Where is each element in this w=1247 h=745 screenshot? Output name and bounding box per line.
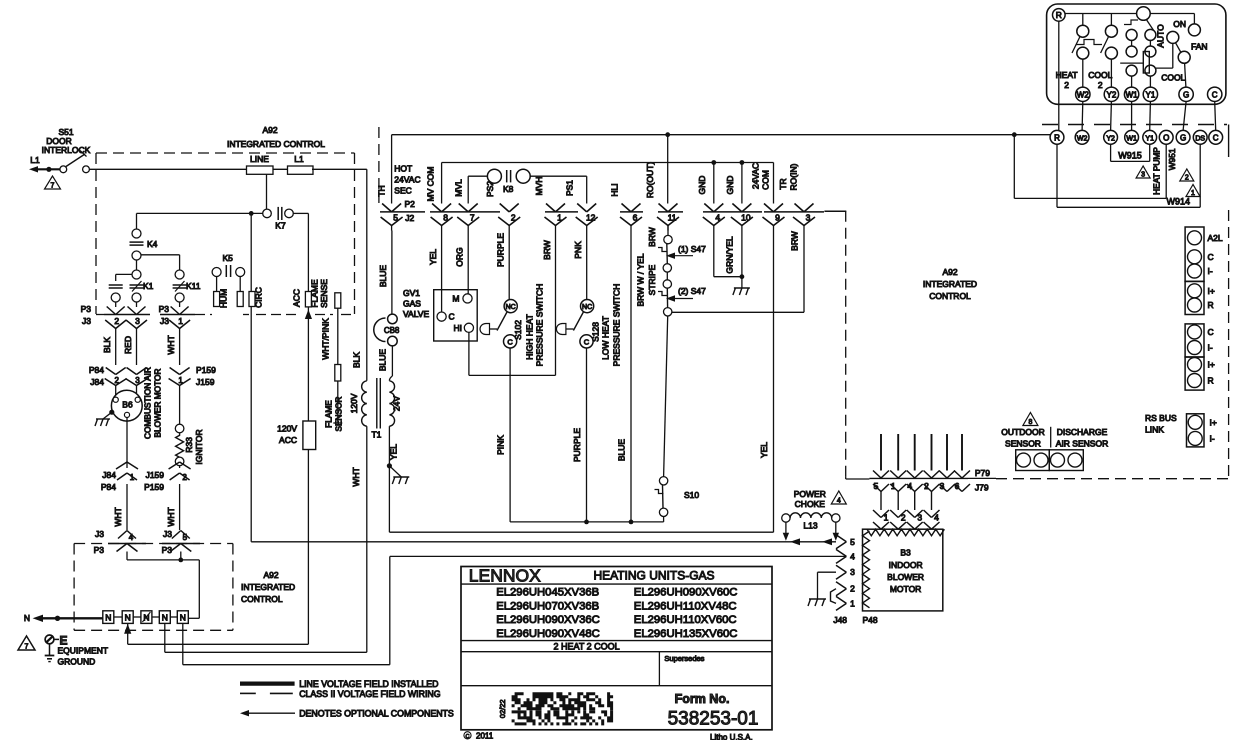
svg-text:L1: L1 (30, 155, 40, 165)
svg-text:J2: J2 (405, 213, 414, 223)
svg-text:WHT: WHT (166, 507, 176, 526)
svg-text:COM: COM (761, 170, 771, 190)
svg-text:INTEGRATED: INTEGRATED (923, 279, 977, 289)
svg-text:CLASS II VOLTAGE FIELD WIRING: CLASS II VOLTAGE FIELD WIRING (299, 689, 441, 699)
svg-text:YEL: YEL (428, 249, 438, 265)
svg-text:BLK: BLK (352, 352, 362, 368)
svg-text:J3: J3 (95, 529, 104, 539)
svg-text:I-: I- (1208, 266, 1213, 276)
svg-text:6: 6 (633, 213, 638, 223)
svg-text:HUM: HUM (219, 289, 229, 308)
svg-text:Y2: Y2 (1107, 90, 1117, 99)
svg-text:12: 12 (586, 213, 596, 223)
svg-text:W951: W951 (1167, 148, 1177, 170)
svg-text:8: 8 (1028, 419, 1032, 426)
svg-text:2: 2 (1098, 80, 1103, 90)
svg-text:24VAC: 24VAC (394, 175, 420, 185)
svg-text:(2) S47: (2) S47 (678, 286, 706, 296)
svg-text:FLAME: FLAME (310, 279, 320, 308)
svg-text:GAS: GAS (403, 299, 421, 309)
svg-text:INDOOR: INDOOR (889, 560, 923, 570)
svg-text:SENSOR: SENSOR (1005, 439, 1041, 449)
svg-text:N: N (24, 613, 30, 623)
svg-text:COOL: COOL (1088, 70, 1112, 80)
svg-text:RED: RED (123, 336, 133, 354)
svg-text:RO(OUT): RO(OUT) (645, 162, 655, 199)
svg-text:PRESSURE SWITCH: PRESSURE SWITCH (535, 284, 545, 367)
svg-text:NC: NC (506, 304, 516, 311)
svg-text:11: 11 (668, 213, 677, 223)
svg-text:538253-01: 538253-01 (668, 709, 759, 730)
svg-text:J48: J48 (833, 615, 847, 625)
svg-text:S102: S102 (513, 320, 523, 340)
svg-text:Litho U.S.A.: Litho U.S.A. (710, 733, 753, 740)
svg-text:O: O (1163, 133, 1169, 142)
svg-text:LENNOX: LENNOX (469, 566, 541, 586)
svg-text:A92: A92 (263, 570, 278, 580)
svg-text:3: 3 (1141, 172, 1145, 179)
svg-text:PRESSURE SWITCH: PRESSURE SWITCH (612, 284, 622, 367)
svg-text:EL296UH110XV48C: EL296UH110XV48C (634, 600, 737, 612)
svg-text:BRW: BRW (647, 227, 657, 247)
svg-text:INTEGRATED CONTROL: INTEGRATED CONTROL (227, 139, 325, 149)
svg-text:N: N (125, 612, 131, 622)
svg-text:LINK: LINK (1145, 425, 1164, 435)
svg-text:120V: 120V (349, 393, 359, 413)
svg-text:(1) S47: (1) S47 (678, 244, 706, 254)
svg-text:YEL: YEL (759, 442, 769, 458)
svg-text:P159: P159 (144, 482, 164, 492)
svg-text:4: 4 (837, 498, 841, 505)
svg-text:4: 4 (934, 513, 939, 523)
svg-text:2: 2 (511, 213, 516, 223)
svg-text:ON: ON (1173, 19, 1186, 29)
svg-text:3: 3 (806, 213, 811, 223)
svg-text:DS: DS (1195, 135, 1205, 142)
svg-text:LINE VOLTAGE FIELD INSTALLED: LINE VOLTAGE FIELD INSTALLED (299, 679, 438, 689)
svg-text:B3: B3 (900, 548, 911, 558)
svg-text:P79: P79 (975, 468, 990, 478)
svg-text:EL296UH090XV60C: EL296UH090XV60C (634, 587, 738, 599)
svg-text:BRW W / YEL: BRW W / YEL (636, 253, 646, 306)
svg-text:1: 1 (557, 213, 562, 223)
svg-text:2: 2 (1064, 80, 1069, 90)
svg-text:GND: GND (725, 176, 735, 195)
svg-text:EQUIPMENT: EQUIPMENT (58, 646, 109, 656)
svg-text:Supersedes: Supersedes (664, 654, 704, 663)
svg-text:9: 9 (775, 213, 780, 223)
svg-text:P3: P3 (162, 545, 173, 555)
svg-text:HEAT: HEAT (1056, 70, 1078, 80)
svg-text:BRW: BRW (542, 240, 552, 260)
svg-text:PURPLE: PURPLE (572, 428, 582, 462)
svg-text:W914: W914 (1166, 197, 1190, 207)
svg-text:MV COM: MV COM (426, 167, 436, 202)
svg-text:K7: K7 (275, 221, 286, 231)
svg-text:P84: P84 (101, 482, 116, 492)
svg-text:FAN: FAN (1191, 42, 1208, 52)
svg-text:J159: J159 (196, 377, 215, 387)
svg-text:2: 2 (182, 473, 187, 482)
svg-text:3: 3 (135, 376, 140, 385)
svg-text:I+: I+ (1208, 286, 1215, 296)
svg-text:I-: I- (1208, 343, 1213, 353)
svg-text:10: 10 (741, 213, 751, 223)
svg-text:VALVE: VALVE (403, 309, 429, 319)
svg-text:GROUND: GROUND (58, 657, 96, 667)
svg-text:WHT: WHT (351, 467, 361, 486)
svg-text:I-: I- (1210, 433, 1215, 443)
svg-text:J79: J79 (975, 483, 989, 493)
svg-text:R33: R33 (184, 437, 194, 453)
svg-text:YEL: YEL (389, 444, 399, 460)
svg-text:LINE: LINE (250, 154, 269, 164)
svg-text:EL296UH090XV48C: EL296UH090XV48C (496, 628, 600, 640)
svg-text:8: 8 (443, 213, 448, 223)
svg-text:ORG: ORG (455, 247, 465, 266)
svg-text:24V: 24V (392, 396, 402, 411)
svg-text:NC: NC (582, 304, 592, 311)
svg-text:2: 2 (901, 513, 906, 523)
svg-text:BRW: BRW (790, 231, 800, 251)
svg-text:3: 3 (850, 567, 855, 577)
svg-text:WHT: WHT (166, 335, 176, 354)
svg-text:ACC: ACC (292, 289, 302, 307)
svg-text:N: N (162, 612, 168, 622)
svg-text:7: 7 (470, 213, 475, 223)
svg-text:R: R (1208, 376, 1214, 386)
svg-text:HOT: HOT (394, 164, 412, 174)
svg-text:P3: P3 (81, 304, 92, 314)
svg-text:K1: K1 (143, 281, 154, 291)
svg-text:K8: K8 (503, 184, 514, 194)
svg-text:HEATING UNITS-GAS: HEATING UNITS-GAS (593, 569, 714, 583)
svg-text:CHOKE: CHOKE (795, 499, 826, 509)
svg-text:120V: 120V (277, 424, 297, 434)
svg-text:Y2: Y2 (1106, 135, 1115, 142)
svg-text:RO(IN): RO(IN) (789, 163, 799, 190)
svg-text:4: 4 (129, 533, 134, 542)
svg-text:EL296UH090XV36C: EL296UH090XV36C (496, 614, 600, 626)
svg-text:BLUE: BLUE (378, 349, 388, 372)
svg-text:DENOTES OPTIONAL COMPONENTS: DENOTES OPTIONAL COMPONENTS (299, 709, 454, 719)
svg-text:HEAT PUMP: HEAT PUMP (1151, 147, 1161, 195)
svg-text:COOL: COOL (1161, 73, 1185, 83)
svg-text:C: C (466, 734, 470, 740)
svg-text:MOTOR: MOTOR (890, 584, 921, 594)
svg-text:PS1: PS1 (564, 180, 574, 196)
svg-text:ACC: ACC (279, 435, 297, 445)
svg-text:4: 4 (850, 551, 855, 561)
svg-text:I+: I+ (1210, 417, 1217, 427)
svg-text:P3: P3 (159, 304, 170, 314)
svg-text:K11: K11 (186, 281, 201, 291)
svg-text:LOW HEAT: LOW HEAT (600, 316, 610, 360)
svg-text:TR: TR (778, 178, 788, 189)
svg-text:4: 4 (715, 213, 720, 223)
svg-text:P2: P2 (404, 199, 415, 209)
svg-text:1: 1 (850, 598, 855, 608)
svg-text:EL296UH110XV60C: EL296UH110XV60C (634, 614, 737, 626)
svg-text:24VAC: 24VAC (751, 163, 761, 189)
svg-text:1: 1 (130, 473, 135, 482)
svg-text:PURPLE: PURPLE (496, 233, 506, 267)
svg-text:WHT/PINK: WHT/PINK (321, 318, 331, 360)
svg-text:7: 7 (51, 183, 55, 190)
svg-text:J3: J3 (163, 529, 172, 539)
svg-text:Form No.: Form No. (675, 692, 730, 706)
svg-text:HI: HI (454, 323, 463, 333)
svg-text:CONTROL: CONTROL (929, 291, 971, 301)
svg-text:K4: K4 (147, 239, 158, 249)
svg-text:POWER: POWER (794, 489, 826, 499)
svg-text:W915: W915 (1118, 150, 1142, 160)
svg-text:Y1: Y1 (1145, 135, 1154, 142)
svg-text:W1: W1 (1126, 135, 1137, 142)
svg-text:MVL: MVL (453, 179, 463, 197)
svg-text:2: 2 (850, 584, 855, 594)
svg-text:A92: A92 (262, 125, 277, 135)
svg-text:P48: P48 (862, 615, 877, 625)
svg-text:BLUE: BLUE (617, 439, 627, 462)
svg-text:S10: S10 (684, 490, 699, 500)
svg-text:AIR SENSOR: AIR SENSOR (1056, 439, 1108, 449)
svg-text:C: C (1212, 90, 1218, 99)
svg-text:5: 5 (393, 213, 398, 223)
svg-text:C: C (584, 337, 590, 346)
svg-text:C: C (1208, 252, 1214, 262)
svg-text:1: 1 (884, 513, 889, 523)
svg-text:2011: 2011 (476, 732, 494, 741)
svg-text:STRIPE: STRIPE (647, 264, 657, 295)
svg-text:2: 2 (114, 316, 119, 326)
svg-text:1: 1 (178, 376, 183, 385)
svg-text:I+: I+ (1208, 360, 1215, 370)
svg-text:C: C (1208, 327, 1214, 337)
svg-text:C: C (1213, 133, 1219, 142)
svg-text:W2: W2 (1077, 135, 1088, 142)
svg-text:K5: K5 (222, 253, 233, 263)
svg-text:7: 7 (25, 644, 29, 651)
svg-text:EL296UH135XV60C: EL296UH135XV60C (634, 628, 738, 640)
svg-text:02/22: 02/22 (498, 699, 507, 718)
svg-text:N: N (105, 612, 111, 622)
svg-text:1: 1 (1191, 190, 1195, 197)
svg-text:R: R (1054, 133, 1060, 142)
svg-text:EL296UH045XV36B: EL296UH045XV36B (496, 587, 599, 599)
svg-text:PNK: PNK (573, 241, 583, 259)
svg-text:AUTO: AUTO (1156, 24, 1166, 48)
svg-text:P159: P159 (196, 365, 216, 375)
svg-text:BLOWER MOTOR: BLOWER MOTOR (153, 368, 163, 437)
svg-text:GV1: GV1 (403, 288, 420, 298)
svg-text:CONTROL: CONTROL (241, 594, 283, 604)
svg-text:CIRC: CIRC (254, 287, 264, 308)
svg-text:TH: TH (377, 185, 387, 196)
svg-text:G: G (1183, 90, 1189, 99)
svg-text:INTEGRATED: INTEGRATED (241, 582, 295, 592)
svg-text:2: 2 (1185, 175, 1189, 182)
svg-text:5: 5 (850, 537, 855, 547)
svg-text:R: R (1056, 10, 1062, 20)
svg-text:G: G (1180, 133, 1186, 142)
svg-text:1: 1 (178, 316, 183, 326)
svg-text:J3: J3 (160, 316, 169, 326)
svg-text:BLK: BLK (102, 337, 112, 353)
svg-text:N: N (180, 612, 186, 622)
svg-text:J3: J3 (82, 316, 91, 326)
svg-text:CB8: CB8 (384, 326, 400, 335)
svg-text:2: 2 (114, 376, 119, 385)
svg-text:P3: P3 (94, 545, 105, 555)
svg-text:PINK: PINK (496, 435, 506, 455)
svg-text:W2: W2 (1077, 90, 1090, 99)
svg-text:GRN/YEL: GRN/YEL (725, 236, 735, 274)
svg-text:L1: L1 (294, 154, 304, 164)
svg-text:B6: B6 (122, 400, 133, 410)
svg-text:P84: P84 (89, 365, 104, 375)
svg-text:J84: J84 (90, 377, 104, 387)
svg-text:2 HEAT 2 COOL: 2 HEAT 2 COOL (553, 642, 619, 652)
svg-text:A92: A92 (942, 267, 957, 277)
svg-text:GND: GND (697, 176, 707, 195)
svg-text:BLOWER: BLOWER (887, 572, 924, 582)
svg-text:A2L: A2L (1208, 233, 1223, 243)
svg-text:S128: S128 (590, 322, 600, 342)
svg-text:M: M (452, 294, 459, 304)
svg-text:FLAME: FLAME (324, 400, 334, 428)
svg-text:T1: T1 (371, 430, 381, 440)
svg-text:HLI: HLI (609, 183, 619, 196)
svg-text:J84: J84 (102, 470, 116, 480)
svg-text:J159: J159 (146, 470, 165, 480)
svg-text:5: 5 (183, 533, 188, 542)
svg-text:SEC: SEC (394, 186, 411, 196)
svg-text:R: R (1208, 300, 1214, 310)
svg-text:C: C (449, 312, 455, 322)
svg-text:DISCHARGE: DISCHARGE (1057, 427, 1108, 437)
svg-text:COMBUSTION AIR: COMBUSTION AIR (143, 367, 153, 439)
svg-text:WHT: WHT (113, 507, 123, 526)
svg-text:IGNITOR: IGNITOR (194, 429, 204, 464)
svg-text:3: 3 (917, 513, 922, 523)
svg-text:SENSE: SENSE (319, 279, 329, 308)
svg-text:OUTDOOR: OUTDOOR (1001, 427, 1044, 437)
svg-text:W1: W1 (1126, 90, 1139, 99)
svg-text:HIGH HEAT: HIGH HEAT (524, 314, 534, 360)
svg-text:SENSOR: SENSOR (334, 396, 344, 431)
svg-text:BLUE: BLUE (378, 265, 388, 288)
svg-text:Y1: Y1 (1146, 90, 1156, 99)
svg-text:RS BUS: RS BUS (1145, 413, 1177, 423)
svg-text:MVH: MVH (534, 177, 544, 196)
svg-text:EL296UH070XV36B: EL296UH070XV36B (496, 600, 599, 612)
svg-text:3: 3 (135, 316, 140, 326)
svg-text:L13: L13 (803, 521, 817, 531)
